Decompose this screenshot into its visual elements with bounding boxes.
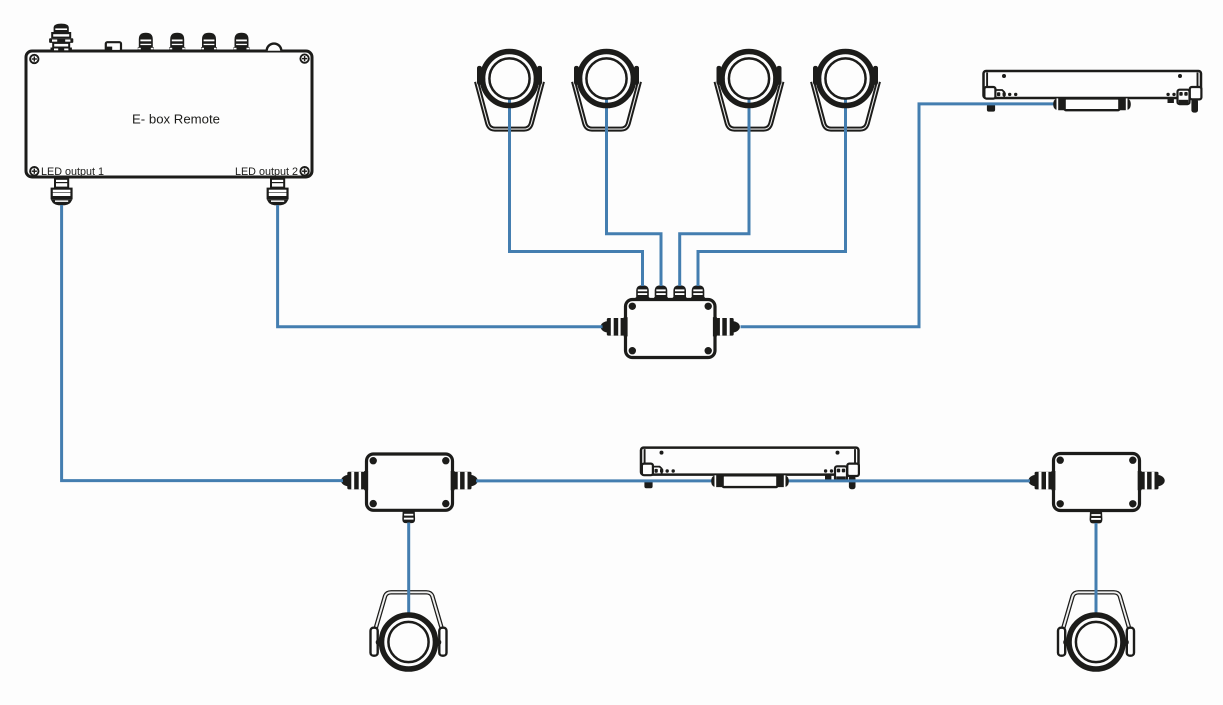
splitter top gland 1 [636, 285, 650, 300]
E-box top gland 2 [169, 33, 185, 52]
E-box top gland 1 [138, 33, 154, 52]
E-box top gland 3 [201, 33, 217, 52]
E-box Remote controller body [26, 51, 312, 177]
spotlight 5 yoke [371, 592, 447, 655]
splitter top gland 3 [673, 285, 687, 300]
E-box screw top-left [30, 55, 38, 63]
wire spotlight 2 to splitter gland 2 [607, 97, 662, 287]
spotlight 1 yoke [477, 66, 543, 129]
top-right LED bar centre module [1053, 98, 1131, 110]
splitter left barrel connector [601, 317, 628, 336]
top-right LED bar body [984, 71, 1202, 113]
splitter junction box body [626, 300, 716, 358]
E-box screw bottom-left [30, 167, 38, 175]
E-box LED output 2 connector [267, 177, 289, 205]
svg-text:LED output 2: LED output 2 [235, 166, 298, 178]
spotlight 3 yoke [716, 66, 782, 129]
spotlight 5 lens [382, 615, 436, 669]
bottom-centre LED bar centre module [711, 475, 789, 487]
spotlight 2 yoke [574, 66, 640, 129]
svg-text:E- box Remote: E- box Remote [132, 112, 220, 127]
wire spotlight 1 to splitter gland 1 [510, 97, 643, 287]
E-box screw top-right [300, 54, 308, 62]
bottom-left box right barrel connector [451, 471, 478, 490]
spotlight 1 lens [483, 52, 537, 106]
spotlight 2 lens [580, 52, 634, 106]
svg-text:LED output 1: LED output 1 [41, 166, 104, 178]
bottom-left junction box body [367, 454, 453, 510]
spotlight 6 lens [1069, 615, 1123, 669]
wire spotlight 3 to splitter gland 3 [680, 97, 749, 287]
bottom-right junction box body [1054, 454, 1140, 511]
wire LED output 1 to bottom-left box [62, 205, 343, 481]
E-box top dome button [267, 44, 282, 51]
bottom-right box right barrel connector [1138, 471, 1165, 490]
wire bottom-left box to spotlight 5 [407, 523, 410, 616]
spotlight 3 lens [722, 52, 776, 106]
spotlight 6 yoke [1058, 592, 1134, 655]
bottom-right box left barrel connector [1028, 471, 1055, 490]
E-box label [132, 112, 220, 127]
wire splitter to top-right LED bar [741, 104, 1059, 327]
E-box top gland 4 [234, 33, 250, 52]
wire LED output 2 to splitter [278, 205, 603, 327]
spotlight 4 lens [819, 52, 873, 106]
wire bottom-right box to spotlight 6 [1095, 523, 1098, 615]
bottom-left box bottom gland [402, 510, 415, 523]
label LED output 2 [235, 166, 298, 178]
spotlight 4 yoke [813, 66, 879, 129]
E-box big antenna gland [49, 24, 73, 52]
bottom-left box left barrel connector [341, 471, 368, 490]
splitter right barrel connector [713, 317, 740, 336]
wire spotlight 4 to splitter gland 4 [698, 97, 846, 287]
splitter top gland 2 [654, 285, 668, 300]
wire bottom-left box to bottom-right box [476, 479, 1030, 482]
splitter top gland 4 [691, 285, 705, 300]
bottom-right box bottom gland [1090, 511, 1103, 524]
label LED output 1 [41, 166, 104, 178]
E-box screw bottom-right [300, 167, 308, 175]
E-box LED output 1 connector [51, 177, 73, 205]
E-box DIP switch [106, 42, 121, 51]
bottom-centre LED bar body [641, 448, 859, 490]
